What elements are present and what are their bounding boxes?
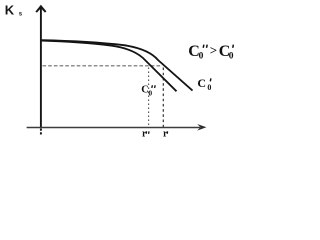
y-axis below-origin dots [40, 129, 42, 137]
x tick label r' [163, 129, 168, 140]
label C0' near right curve [197, 76, 211, 92]
svg-text:C: C [197, 76, 206, 90]
horizontal dashed guide line [43, 65, 162, 67]
label C0'' near left curve [141, 85, 155, 98]
curve C0'' (drops earlier) [42, 41, 177, 92]
y-axis arrowhead [35, 5, 46, 13]
y-axis [40, 7, 42, 128]
x tick label r'' [142, 129, 149, 140]
svg-text:0: 0 [148, 89, 152, 98]
vertical dotted guide at r'' [148, 68, 150, 128]
svg-text:r: r [163, 129, 168, 140]
svg-text:0: 0 [207, 83, 211, 92]
svg-text:0: 0 [229, 51, 234, 61]
inequality text C0'' > C0' [188, 43, 234, 62]
x-axis arrowhead [197, 124, 206, 131]
svg-text:>: > [210, 43, 217, 58]
svg-text:K: K [5, 3, 15, 18]
svg-text:r: r [142, 129, 147, 140]
x-axis [27, 127, 200, 129]
svg-text:0: 0 [199, 51, 204, 61]
vertical dashed guide at r' [162, 68, 164, 128]
curve C0' (drops later) [42, 40, 193, 90]
